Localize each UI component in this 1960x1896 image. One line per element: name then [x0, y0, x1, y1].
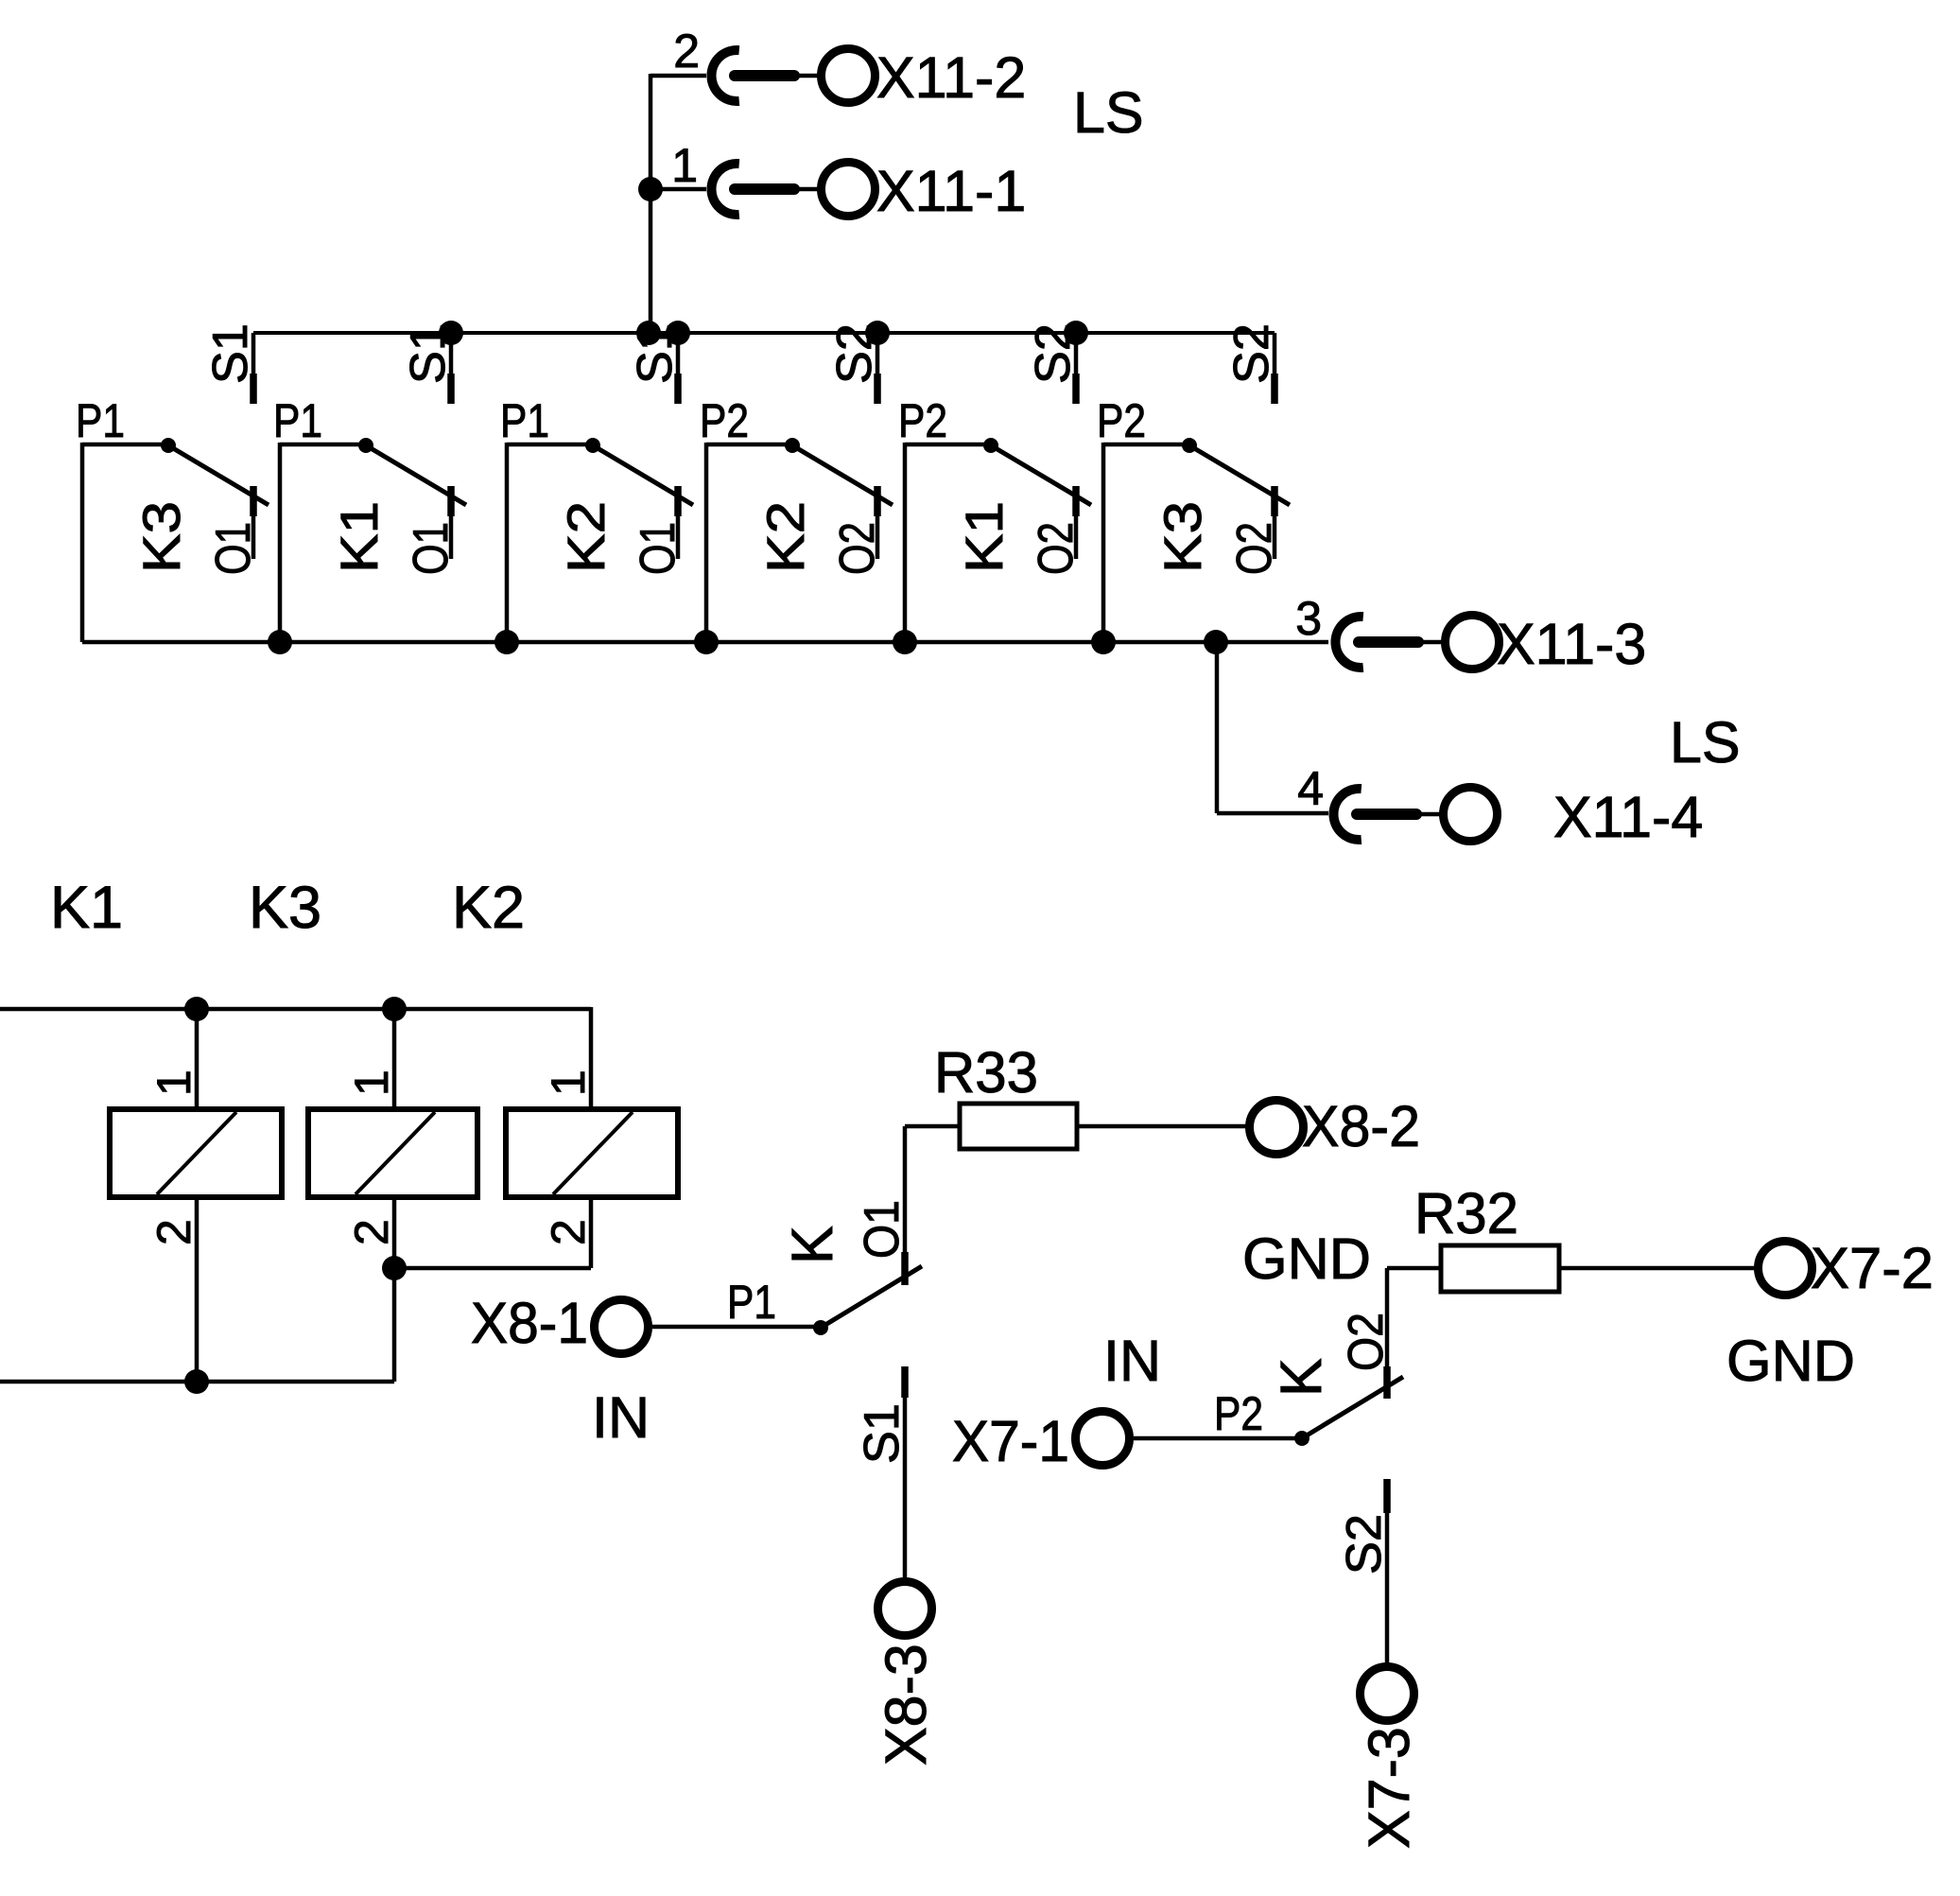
svg-text:X11-4: X11-4 [1553, 785, 1703, 849]
svg-text:P1: P1 [727, 1276, 776, 1329]
svg-text:GND: GND [1726, 1329, 1855, 1393]
svg-text:X11-3: X11-3 [1497, 612, 1646, 676]
svg-text:1: 1 [671, 139, 698, 192]
svg-text:K3: K3 [131, 501, 191, 573]
svg-text:X11-1: X11-1 [876, 159, 1026, 223]
svg-text:2: 2 [345, 1219, 398, 1245]
svg-text:S2: S2 [1026, 323, 1081, 384]
svg-text:X7-3: X7-3 [1357, 1727, 1421, 1849]
svg-text:S1: S1 [628, 323, 683, 384]
svg-text:P2: P2 [1214, 1387, 1263, 1440]
svg-text:K2: K2 [755, 501, 815, 573]
svg-text:X8-1: X8-1 [471, 1291, 588, 1355]
svg-text:K2: K2 [452, 875, 525, 941]
svg-text:X8-2: X8-2 [1302, 1094, 1420, 1158]
svg-text:S2: S2 [1337, 1514, 1392, 1574]
svg-text:K2: K2 [556, 501, 616, 573]
svg-text:K: K [780, 1226, 844, 1264]
svg-text:LS: LS [1073, 80, 1144, 145]
svg-text:K3: K3 [1153, 501, 1212, 573]
svg-text:K: K [1269, 1358, 1333, 1397]
svg-text:P2: P2 [898, 394, 947, 447]
svg-text:3: 3 [1295, 592, 1322, 645]
svg-text:1: 1 [542, 1070, 595, 1096]
svg-text:2: 2 [542, 1219, 595, 1245]
svg-text:K1: K1 [329, 501, 389, 573]
svg-text:P2: P2 [1097, 394, 1146, 447]
svg-text:S2: S2 [1224, 323, 1279, 384]
svg-text:O1: O1 [855, 1200, 910, 1259]
svg-text:O2: O2 [1029, 522, 1084, 575]
svg-text:S1: S1 [401, 323, 456, 384]
svg-text:LS: LS [1670, 710, 1741, 774]
svg-text:X7-1: X7-1 [952, 1409, 1069, 1473]
svg-text:X8-3: X8-3 [874, 1644, 938, 1766]
svg-text:GND: GND [1242, 1226, 1371, 1291]
svg-text:X7-2: X7-2 [1811, 1236, 1934, 1300]
svg-text:O1: O1 [206, 522, 261, 575]
svg-text:R33: R33 [934, 1040, 1038, 1105]
svg-text:X11-2: X11-2 [876, 45, 1026, 110]
svg-text:IN: IN [1103, 1329, 1161, 1393]
svg-text:4: 4 [1297, 762, 1324, 815]
svg-text:K3: K3 [249, 875, 321, 941]
svg-text:S2: S2 [827, 323, 882, 384]
svg-text:P1: P1 [273, 394, 322, 447]
svg-text:2: 2 [147, 1219, 200, 1245]
svg-text:1: 1 [147, 1070, 200, 1096]
svg-text:K1: K1 [954, 501, 1014, 573]
svg-text:O1: O1 [404, 522, 459, 575]
svg-text:1: 1 [345, 1070, 398, 1096]
svg-text:P1: P1 [76, 394, 125, 447]
svg-text:2: 2 [673, 25, 700, 78]
svg-text:P2: P2 [700, 394, 749, 447]
svg-text:IN: IN [592, 1385, 650, 1450]
svg-text:K1: K1 [50, 875, 123, 941]
svg-text:O1: O1 [631, 522, 685, 575]
svg-text:O2: O2 [1227, 522, 1282, 575]
svg-text:R32: R32 [1414, 1181, 1518, 1245]
svg-text:S1: S1 [855, 1403, 910, 1464]
svg-text:P1: P1 [500, 394, 549, 447]
svg-text:O2: O2 [830, 522, 885, 575]
svg-text:S1: S1 [203, 323, 258, 384]
